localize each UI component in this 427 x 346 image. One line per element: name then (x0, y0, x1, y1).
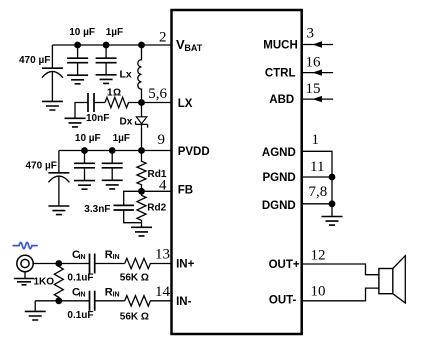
svg-text:10: 10 (311, 284, 326, 300)
svg-text:Lx: Lx (120, 69, 132, 81)
svg-text:IN+: IN+ (176, 259, 195, 271)
svg-text:R: R (105, 249, 113, 261)
svg-text:16: 16 (306, 54, 322, 70)
svg-text:3.3nF: 3.3nF (84, 204, 110, 215)
svg-text:MUCH: MUCH (263, 40, 298, 52)
svg-text:11: 11 (310, 159, 324, 175)
svg-text:R: R (105, 287, 113, 299)
svg-text:10nF: 10nF (86, 113, 109, 124)
svg-text:5,6: 5,6 (148, 86, 167, 102)
svg-text:470 µF: 470 µF (19, 55, 50, 66)
svg-text:OUT+: OUT+ (269, 259, 300, 271)
svg-text:ABD: ABD (269, 94, 294, 106)
svg-text:13: 13 (155, 246, 170, 262)
svg-text:OUT-: OUT- (269, 295, 297, 307)
svg-text:3: 3 (307, 26, 315, 42)
svg-text:Dx: Dx (120, 117, 133, 128)
svg-text:IN: IN (79, 291, 86, 298)
svg-text:IN-: IN- (176, 296, 192, 308)
svg-text:1: 1 (312, 132, 320, 148)
svg-text:9: 9 (158, 132, 166, 148)
svg-text:14: 14 (155, 284, 171, 300)
svg-text:1KO: 1KO (34, 277, 55, 288)
svg-text:10 µF: 10 µF (75, 133, 101, 144)
svg-text:0.1uF: 0.1uF (67, 310, 93, 321)
svg-text:IN: IN (113, 254, 120, 261)
svg-text:CTRL: CTRL (265, 67, 296, 79)
svg-text:PGND: PGND (262, 172, 295, 184)
svg-text:BAT: BAT (184, 43, 202, 53)
svg-text:AGND: AGND (262, 147, 296, 159)
svg-text:Rd2: Rd2 (147, 203, 166, 214)
svg-text:0.1uF: 0.1uF (67, 273, 93, 284)
svg-text:15: 15 (306, 81, 321, 97)
svg-text:FB: FB (178, 184, 193, 196)
svg-text:1µF: 1µF (113, 133, 130, 144)
svg-text:DGND: DGND (262, 200, 296, 212)
svg-text:LX: LX (178, 98, 193, 110)
svg-text:7,8: 7,8 (309, 184, 328, 200)
svg-text:PVDD: PVDD (178, 146, 210, 158)
svg-text:10 µF: 10 µF (69, 27, 95, 38)
svg-text:1µF: 1µF (106, 27, 123, 38)
svg-text:Rd1: Rd1 (148, 169, 167, 180)
svg-text:470 µF: 470 µF (26, 161, 57, 172)
svg-text:56K Ω: 56K Ω (120, 312, 149, 323)
svg-text:1Ω: 1Ω (107, 87, 122, 98)
svg-text:IN: IN (79, 254, 86, 261)
svg-text:2: 2 (159, 30, 167, 46)
svg-text:12: 12 (311, 247, 326, 263)
svg-text:56K Ω: 56K Ω (120, 273, 149, 284)
svg-text:IN: IN (113, 291, 120, 298)
